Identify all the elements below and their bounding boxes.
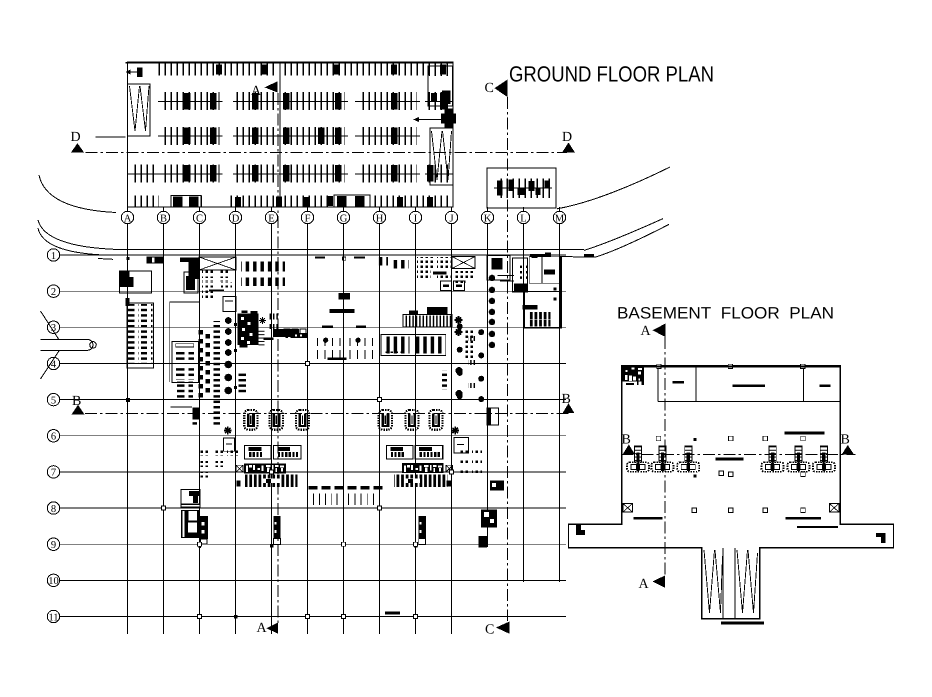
svg-text:7: 7 — [51, 468, 56, 479]
svg-text:H: H — [376, 213, 384, 224]
svg-text:B: B — [72, 394, 81, 409]
svg-text:D: D — [71, 130, 81, 145]
svg-text:A: A — [257, 621, 268, 636]
svg-text:K: K — [484, 213, 492, 224]
svg-text:B: B — [622, 433, 631, 448]
svg-text:B: B — [841, 433, 850, 448]
svg-text:9: 9 — [51, 540, 56, 551]
svg-text:B: B — [562, 392, 571, 407]
svg-text:11: 11 — [48, 612, 58, 623]
svg-text:1: 1 — [51, 251, 56, 262]
svg-text:A: A — [639, 577, 650, 592]
svg-text:G: G — [340, 213, 348, 224]
svg-text:GROUND FLOOR PLAN: GROUND FLOOR PLAN — [509, 62, 714, 87]
svg-text:E: E — [268, 213, 274, 224]
svg-text:D: D — [232, 213, 240, 224]
svg-text:M: M — [555, 213, 565, 224]
svg-text:4: 4 — [51, 359, 57, 370]
svg-text:10: 10 — [48, 576, 59, 587]
svg-text:5: 5 — [51, 395, 56, 406]
svg-text:J: J — [449, 213, 453, 224]
svg-text:D: D — [562, 130, 572, 145]
svg-text:A: A — [124, 213, 132, 224]
svg-text:A: A — [641, 324, 652, 339]
svg-text:B: B — [160, 213, 167, 224]
svg-text:C: C — [485, 623, 494, 638]
svg-text:8: 8 — [51, 504, 56, 515]
svg-text:BASEMENT FLOOR PLAN: BASEMENT FLOOR PLAN — [617, 305, 834, 323]
svg-text:I: I — [414, 213, 418, 224]
svg-text:F: F — [305, 213, 311, 224]
svg-text:L: L — [520, 213, 526, 224]
svg-text:6: 6 — [51, 432, 56, 443]
svg-text:2: 2 — [51, 287, 56, 298]
svg-text:C: C — [485, 81, 494, 96]
svg-text:C: C — [196, 213, 203, 224]
